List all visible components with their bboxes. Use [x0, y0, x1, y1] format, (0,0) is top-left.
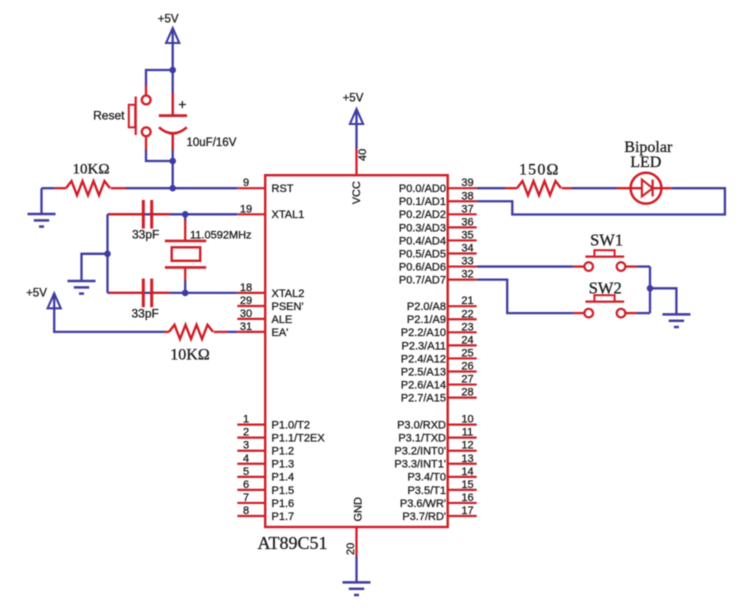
svg-text:P0.2/AD2: P0.2/AD2 — [399, 209, 446, 221]
svg-text:3: 3 — [243, 440, 249, 452]
svg-text:+5V: +5V — [26, 288, 47, 300]
svg-text:P3.0/RXD: P3.0/RXD — [397, 420, 446, 432]
svg-text:+5V: +5V — [343, 93, 364, 105]
svg-text:P3.7/RD': P3.7/RD' — [402, 511, 446, 523]
svg-text:4: 4 — [243, 453, 249, 465]
svg-text:RST: RST — [272, 183, 294, 195]
svg-text:30: 30 — [240, 308, 252, 320]
svg-text:P0.1/AD1: P0.1/AD1 — [399, 196, 446, 208]
svg-text:8: 8 — [243, 505, 249, 517]
svg-text:P1.3: P1.3 — [272, 459, 295, 471]
svg-text:P3.6/WR': P3.6/WR' — [400, 498, 446, 510]
svg-text:P3.5/T1: P3.5/T1 — [407, 485, 446, 497]
svg-text:LED: LED — [630, 154, 661, 171]
svg-text:19: 19 — [240, 203, 252, 215]
svg-text:P2.5/A13: P2.5/A13 — [401, 366, 446, 378]
svg-text:21: 21 — [461, 295, 473, 307]
svg-text:P1.1/T2EX: P1.1/T2EX — [272, 433, 326, 445]
svg-text:10: 10 — [461, 414, 473, 426]
svg-text:35: 35 — [461, 229, 473, 241]
svg-text:P3.4/T0: P3.4/T0 — [407, 472, 446, 484]
svg-text:16: 16 — [461, 492, 473, 504]
svg-text:34: 34 — [461, 243, 473, 255]
svg-text:40: 40 — [357, 149, 369, 161]
svg-text:P3.2/INT0': P3.2/INT0' — [394, 446, 446, 458]
svg-text:33: 33 — [461, 256, 473, 268]
svg-text:P2.0/A8: P2.0/A8 — [407, 301, 446, 313]
svg-text:17: 17 — [461, 505, 473, 517]
svg-text:P1.5: P1.5 — [272, 485, 295, 497]
svg-text:26: 26 — [461, 361, 473, 373]
svg-text:32: 32 — [461, 269, 473, 281]
svg-text:XTAL1: XTAL1 — [272, 209, 305, 221]
svg-text:31: 31 — [240, 321, 252, 333]
svg-text:P1.7: P1.7 — [272, 511, 295, 523]
svg-text:15: 15 — [461, 479, 473, 491]
svg-text:25: 25 — [461, 347, 473, 359]
svg-text:10KΩ: 10KΩ — [170, 347, 210, 364]
svg-text:11.0592MHz: 11.0592MHz — [190, 230, 252, 242]
svg-text:+: + — [178, 96, 186, 112]
svg-text:GND: GND — [353, 497, 365, 522]
svg-text:AT89C51: AT89C51 — [257, 533, 327, 553]
svg-text:P0.4/AD4: P0.4/AD4 — [399, 235, 446, 247]
svg-text:9: 9 — [243, 177, 249, 189]
svg-text:P2.7/A15: P2.7/A15 — [401, 393, 446, 405]
svg-text:SW2: SW2 — [589, 279, 622, 298]
svg-text:P0.6/AD6: P0.6/AD6 — [399, 261, 446, 273]
svg-text:ALE: ALE — [272, 314, 293, 326]
svg-text:33pF: 33pF — [132, 228, 159, 242]
svg-text:P1.6: P1.6 — [272, 498, 295, 510]
svg-text:29: 29 — [240, 295, 252, 307]
svg-text:2: 2 — [243, 427, 249, 439]
svg-text:38: 38 — [461, 190, 473, 202]
svg-text:27: 27 — [461, 374, 473, 386]
svg-text:P0.3/AD3: P0.3/AD3 — [399, 222, 446, 234]
svg-text:20: 20 — [345, 543, 357, 555]
svg-text:10KΩ: 10KΩ — [73, 162, 110, 178]
svg-text:P0.0/AD0: P0.0/AD0 — [399, 183, 446, 195]
svg-text:SW1: SW1 — [590, 230, 623, 249]
svg-text:11: 11 — [462, 427, 473, 439]
svg-text:10uF/16V: 10uF/16V — [187, 137, 237, 149]
svg-text:150Ω: 150Ω — [519, 162, 560, 179]
svg-text:36: 36 — [461, 216, 473, 228]
svg-text:+5V: +5V — [158, 13, 179, 25]
svg-text:P2.6/A14: P2.6/A14 — [401, 379, 446, 391]
svg-text:23: 23 — [461, 321, 473, 333]
svg-text:P3.1/TXD: P3.1/TXD — [398, 433, 446, 445]
svg-text:P0.7/AD7: P0.7/AD7 — [399, 275, 446, 287]
svg-text:P2.1/A9: P2.1/A9 — [407, 314, 446, 326]
svg-text:1: 1 — [243, 414, 249, 426]
svg-text:24: 24 — [461, 334, 473, 346]
svg-text:VCC: VCC — [351, 181, 363, 204]
svg-text:P1.2: P1.2 — [272, 446, 295, 458]
svg-text:PSEN': PSEN' — [272, 301, 304, 313]
svg-text:XTAL2: XTAL2 — [272, 288, 305, 300]
svg-text:P0.5/AD5: P0.5/AD5 — [399, 248, 446, 260]
svg-text:P1.0/T2: P1.0/T2 — [272, 420, 311, 432]
svg-text:28: 28 — [461, 387, 473, 399]
svg-text:6: 6 — [243, 479, 249, 491]
svg-text:7: 7 — [243, 492, 249, 504]
svg-text:P2.4/A12: P2.4/A12 — [401, 353, 446, 365]
svg-text:12: 12 — [461, 440, 473, 452]
svg-text:P2.3/A11: P2.3/A11 — [402, 340, 446, 352]
svg-text:14: 14 — [461, 466, 473, 478]
svg-text:P1.4: P1.4 — [272, 472, 295, 484]
svg-text:22: 22 — [461, 308, 473, 320]
svg-text:EA': EA' — [272, 327, 289, 339]
svg-text:18: 18 — [240, 282, 252, 294]
svg-text:P2.2/A10: P2.2/A10 — [401, 327, 446, 339]
svg-text:P3.3/INT1': P3.3/INT1' — [394, 459, 446, 471]
svg-text:5: 5 — [243, 466, 249, 478]
svg-text:37: 37 — [461, 203, 473, 215]
svg-text:33pF: 33pF — [132, 307, 159, 321]
svg-text:39: 39 — [461, 177, 473, 189]
svg-text:Reset: Reset — [93, 109, 125, 123]
svg-text:13: 13 — [461, 453, 473, 465]
